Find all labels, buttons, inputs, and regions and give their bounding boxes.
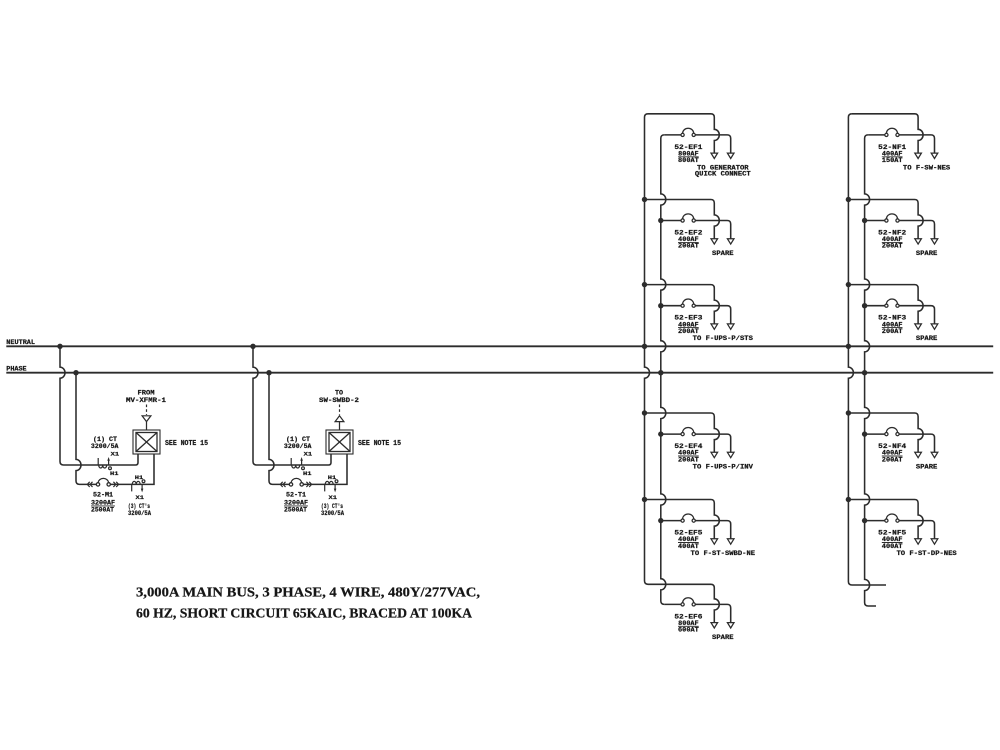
svg-text:200AT: 200AT xyxy=(882,328,903,335)
svg-text:52-M1: 52-M1 xyxy=(93,492,113,499)
svg-text:SEE NOTE 15: SEE NOTE 15 xyxy=(358,440,401,448)
svg-text:X1: X1 xyxy=(304,450,313,457)
svg-text:TO F-ST-DP-NES: TO F-ST-DP-NES xyxy=(897,550,958,557)
svg-text:MV-XFMR-1: MV-XFMR-1 xyxy=(126,397,166,404)
svg-text:SEE NOTE 15: SEE NOTE 15 xyxy=(165,440,208,448)
svg-text:2500AT: 2500AT xyxy=(91,507,114,514)
svg-text:H1: H1 xyxy=(110,470,119,477)
svg-text:H1: H1 xyxy=(135,474,144,481)
svg-text:3200/5A: 3200/5A xyxy=(128,510,151,517)
svg-text:2500AT: 2500AT xyxy=(284,507,307,514)
svg-text:X1: X1 xyxy=(111,450,120,457)
svg-text:200AT: 200AT xyxy=(882,243,903,250)
svg-text:TO F-SW-NES: TO F-SW-NES xyxy=(903,164,951,171)
svg-text:FROM: FROM xyxy=(138,390,155,397)
svg-text:H1: H1 xyxy=(303,470,312,477)
svg-text:TO F-UPS-P/STS: TO F-UPS-P/STS xyxy=(693,335,754,342)
svg-text:QUICK CONNECT: QUICK CONNECT xyxy=(695,170,751,177)
svg-text:SPARE: SPARE xyxy=(916,250,938,257)
svg-text:(1) CT: (1) CT xyxy=(93,436,117,443)
svg-text:200AT: 200AT xyxy=(678,243,699,250)
svg-text:SPARE: SPARE xyxy=(712,634,734,641)
svg-text:H1: H1 xyxy=(328,474,337,481)
svg-text:SPARE: SPARE xyxy=(916,464,938,471)
svg-text:400AT: 400AT xyxy=(678,543,699,550)
svg-text:X1: X1 xyxy=(136,494,145,501)
svg-text:(1) CT: (1) CT xyxy=(286,436,310,443)
svg-text:150AT: 150AT xyxy=(882,157,903,164)
svg-text:200AT: 200AT xyxy=(678,328,699,335)
svg-text:52-T1: 52-T1 xyxy=(286,492,306,499)
svg-text:TO F-ST-SWBD-NE: TO F-ST-SWBD-NE xyxy=(691,550,756,557)
svg-text:PHASE: PHASE xyxy=(6,366,26,373)
svg-text:SPARE: SPARE xyxy=(712,250,734,257)
svg-text:3200/5A: 3200/5A xyxy=(91,443,119,450)
svg-text:NEUTRAL: NEUTRAL xyxy=(6,339,35,346)
svg-text:200AT: 200AT xyxy=(678,456,699,463)
svg-text:SPARE: SPARE xyxy=(916,335,938,342)
svg-text:800AT: 800AT xyxy=(678,157,699,164)
svg-text:TO: TO xyxy=(335,390,343,397)
svg-text:3200/5A: 3200/5A xyxy=(321,510,344,517)
svg-text:3200/5A: 3200/5A xyxy=(284,443,312,450)
svg-text:400AT: 400AT xyxy=(882,543,903,550)
svg-text:TO F-UPS-P/INV: TO F-UPS-P/INV xyxy=(693,464,754,471)
svg-text:200AT: 200AT xyxy=(882,456,903,463)
svg-text:600AT: 600AT xyxy=(678,627,699,634)
svg-text:X1: X1 xyxy=(329,494,338,501)
svg-text:3,000A MAIN BUS, 3 PHASE, 4 WI: 3,000A MAIN BUS, 3 PHASE, 4 WIRE, 480Y/2… xyxy=(136,584,480,599)
svg-text:SW-SWBD-2: SW-SWBD-2 xyxy=(319,397,359,404)
svg-text:60 HZ, SHORT CIRCUIT 65KAIC, B: 60 HZ, SHORT CIRCUIT 65KAIC, BRACED AT 1… xyxy=(136,605,472,620)
